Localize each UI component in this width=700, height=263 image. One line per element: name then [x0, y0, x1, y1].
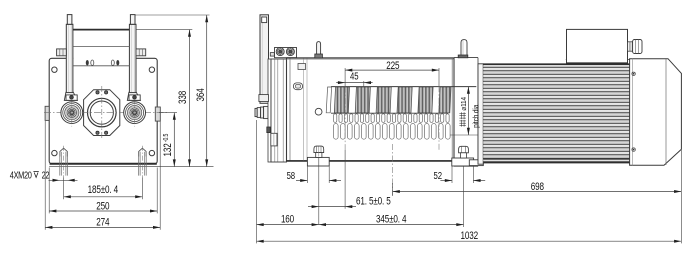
svg-text:364: 364	[195, 88, 208, 102]
svg-text:pitch dia: pitch dia	[471, 104, 481, 128]
small bolts on lower bar	[86, 60, 120, 65]
flange adapter ring	[454, 58, 478, 167]
dim line y180.5: foot width 58	[287, 167, 341, 184]
dimension 45	[336, 71, 372, 87]
svg-text:225: 225	[386, 60, 399, 73]
lower rib on front plate	[271, 133, 277, 146]
oil sight glass	[293, 83, 302, 90]
sprocket centerline	[438, 86, 440, 150]
corner hole bottom-right	[149, 150, 154, 155]
right bearing eye	[124, 100, 146, 127]
small side bolt on plate	[270, 53, 274, 57]
breather pin on gearbox	[315, 42, 323, 58]
housing top latch detail	[298, 64, 306, 70]
motor end bell	[630, 59, 682, 166]
dimension 132-0.5 vertical	[162, 113, 176, 167]
lower cross bar	[73, 65, 130, 67]
dimension 250	[49, 168, 157, 214]
left clevis knuckle	[64, 92, 77, 100]
terminal box	[566, 29, 630, 63]
svg-text:22: 22	[42, 169, 50, 180]
leader line for tapped holes	[49, 179, 78, 182]
dimension 338 vertical	[177, 30, 191, 167]
central bore outer circle	[88, 98, 117, 127]
front plate assembly	[267, 59, 287, 162]
dimension 364 vertical	[195, 15, 208, 167]
hex bolt B top view	[286, 48, 294, 56]
side view: lifting posts edge-on	[260, 15, 269, 104]
dim 52 right foot	[434, 167, 486, 184]
left foot with bolt	[307, 146, 329, 166]
gearbox housing	[287, 58, 455, 161]
dimension 345±0.4	[319, 167, 464, 228]
corner hole top-right	[149, 67, 154, 72]
label 4XM20 depth 22	[10, 169, 50, 180]
left bearing eye	[61, 100, 83, 127]
post bar clamp bracket	[259, 95, 269, 102]
right side boss tab	[155, 107, 160, 121]
svg-text:1032: 1032	[461, 230, 478, 243]
corner hole bottom-left	[52, 150, 57, 155]
svg-text:250: 250	[96, 200, 109, 213]
gear center extension	[392, 144, 394, 196]
left jam nut	[57, 49, 67, 56]
tooth1 centerline	[344, 87, 346, 150]
mid cross bar	[73, 46, 130, 48]
end bell screw bottom	[632, 148, 635, 151]
svg-text:160: 160	[281, 213, 294, 226]
svg-text:58: 58	[287, 170, 295, 181]
slot row small	[334, 114, 450, 123]
dimension 160	[257, 120, 319, 243]
slot row tall capsules	[334, 124, 451, 140]
svg-text:⌀114: ⌀114	[461, 97, 469, 111]
center line horizontal	[44, 112, 168, 114]
svg-text:338: 338	[177, 91, 190, 104]
right jam nut	[136, 49, 146, 56]
breather pin on motor flange	[458, 40, 468, 58]
central flange boss	[84, 90, 120, 136]
dimension 185±0.4	[64, 178, 143, 200]
right foot with bolt	[452, 146, 474, 166]
motor end shield band	[478, 64, 483, 164]
central bore inner circle	[90, 101, 113, 124]
svg-text:45: 45	[350, 71, 358, 82]
right lifting post	[129, 15, 136, 93]
top cross bar (dark)	[73, 29, 130, 31]
left side boss tab	[45, 106, 49, 120]
corner hole top-left	[52, 67, 57, 72]
hex bolt A top view	[276, 48, 284, 56]
right M20 tapped hole (hidden)	[139, 146, 147, 178]
svg-text:61. 5±0. 5: 61. 5±0. 5	[356, 195, 391, 208]
flange bolt holes	[96, 91, 108, 135]
svg-text:4XM20: 4XM20	[10, 169, 32, 180]
end bell screw top	[632, 72, 635, 75]
cable gland connector	[628, 40, 643, 54]
oil plug circle	[315, 108, 322, 115]
extension of center line right	[159, 112, 177, 114]
dimension 225	[345, 60, 439, 86]
pitch dia dimension	[450, 87, 478, 135]
input shaft stack	[255, 106, 268, 118]
dimension 698	[393, 181, 682, 196]
motor fin body	[483, 64, 629, 163]
extension line from post top	[136, 14, 210, 16]
svg-text:274: 274	[96, 216, 110, 229]
pitch dia chinese text	[459, 97, 468, 127]
dimension 274	[45, 121, 160, 230]
motor flange foot	[469, 160, 483, 166]
svg-text:52: 52	[434, 170, 442, 181]
dimension 1032	[257, 150, 682, 243]
base line	[49, 166, 213, 168]
svg-text:185±0. 4: 185±0. 4	[88, 184, 119, 197]
svg-text:345±0. 4: 345±0. 4	[376, 213, 407, 226]
right clevis knuckle	[127, 92, 140, 100]
dimension 61.5±0.5	[308, 150, 391, 225]
center line vertical	[101, 86, 103, 139]
top edge hidden between posts	[73, 57, 129, 60]
sprocket teeth row	[326, 87, 476, 114]
front view: gearbox body	[49, 58, 157, 164]
left lifting post	[66, 15, 73, 93]
svg-text:698: 698	[531, 181, 544, 194]
extension line from top bar	[136, 29, 193, 31]
left M20 tapped hole (hidden)	[60, 146, 68, 178]
top bolt plate	[275, 48, 297, 58]
